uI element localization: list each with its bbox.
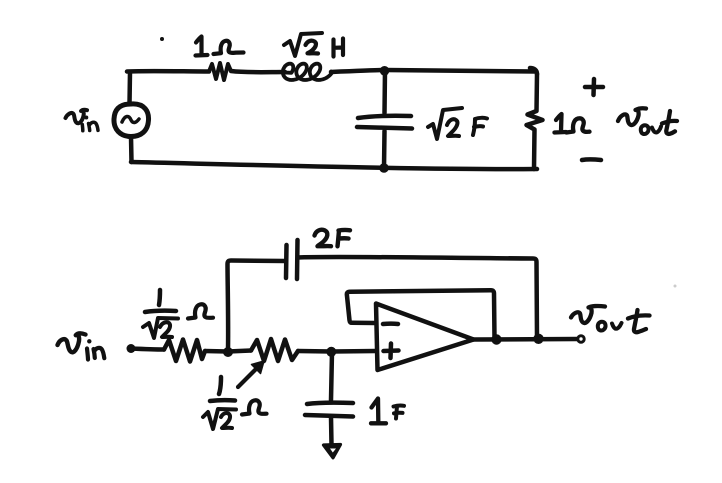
- wire node2 to op-amp + input: [332, 349, 376, 354]
- capacitor √2 F bottom wire: [382, 131, 387, 168]
- label v_out (bottom): [571, 306, 650, 332]
- label √2 F: [428, 108, 487, 139]
- node dot 1 (bottom): [223, 347, 233, 357]
- capacitor 2F right wire: [298, 257, 537, 339]
- wire node1 to R4: [228, 351, 251, 352]
- resistor 1Ω load vertical with zigzag: [527, 74, 543, 169]
- label + (top circuit): [585, 79, 603, 95]
- label 1Ω (load): [555, 114, 590, 133]
- label 1F: [371, 399, 404, 424]
- node dot 2 (bottom): [326, 347, 336, 357]
- node dot op-amp output: [491, 334, 501, 344]
- annotation arrow to R4: [238, 361, 264, 387]
- op-amp triangle: [376, 304, 474, 371]
- node dot top of C1: [380, 66, 390, 76]
- resistor 1/√2 Ω (second): [251, 339, 298, 361]
- op-amp + input mark: [384, 344, 399, 359]
- op-amp − input mark: [383, 321, 398, 326]
- output terminal (open circle): [578, 336, 584, 342]
- capacitor 2F plates: [286, 240, 298, 279]
- ground arrow: [324, 445, 341, 458]
- voltage source Vin: [114, 104, 149, 137]
- node dot 2F junction: [533, 334, 543, 344]
- wire source bottom to rail: [129, 137, 134, 163]
- top-right corner join: [530, 68, 537, 74]
- label v_out (top): [618, 108, 677, 134]
- capacitor √2 F (top wire): [382, 70, 387, 113]
- output wire: [474, 337, 578, 342]
- wire R4 to node2: [298, 349, 332, 354]
- label 2F: [315, 230, 351, 247]
- op-amp feedback loop (inner): [347, 290, 495, 338]
- node dot bottom of C1: [379, 163, 389, 173]
- wire top rail segment 2: [331, 70, 536, 72]
- capacitor 2F feedback: left riser: [228, 261, 286, 350]
- label 1Ω (top series): [196, 37, 244, 56]
- wire top left vertical: [127, 72, 132, 104]
- label √2 H: [284, 33, 343, 57]
- capacitor 1F wire from node2: [331, 352, 332, 400]
- stray dot: [160, 37, 164, 41]
- label 1/√2 Ω (lower): [203, 377, 267, 429]
- label − (top circuit): [582, 157, 601, 162]
- wire between R and L: [231, 71, 285, 72]
- faint dot: [674, 285, 677, 288]
- label 1/√2 Ω (upper): [143, 290, 213, 338]
- capacitor √2 F plates: [357, 116, 412, 129]
- capacitor 1F bottom wire: [329, 417, 334, 445]
- input node dot (bottom): [127, 344, 136, 353]
- label v_in (bottom): [58, 333, 105, 359]
- wire input to R3: [131, 349, 164, 350]
- capacitor 1F plates: [305, 403, 353, 417]
- wire R3 to node1: [205, 349, 228, 354]
- resistor 1/√2 Ω (first): [164, 340, 205, 362]
- inductor √2 H: [283, 64, 332, 80]
- wire bottom rail (top circuit): [131, 162, 537, 169]
- label v_in (top): [66, 110, 99, 131]
- resistor 1Ω (top series): [209, 63, 231, 80]
- wire top rail segment 1: [127, 69, 209, 74]
